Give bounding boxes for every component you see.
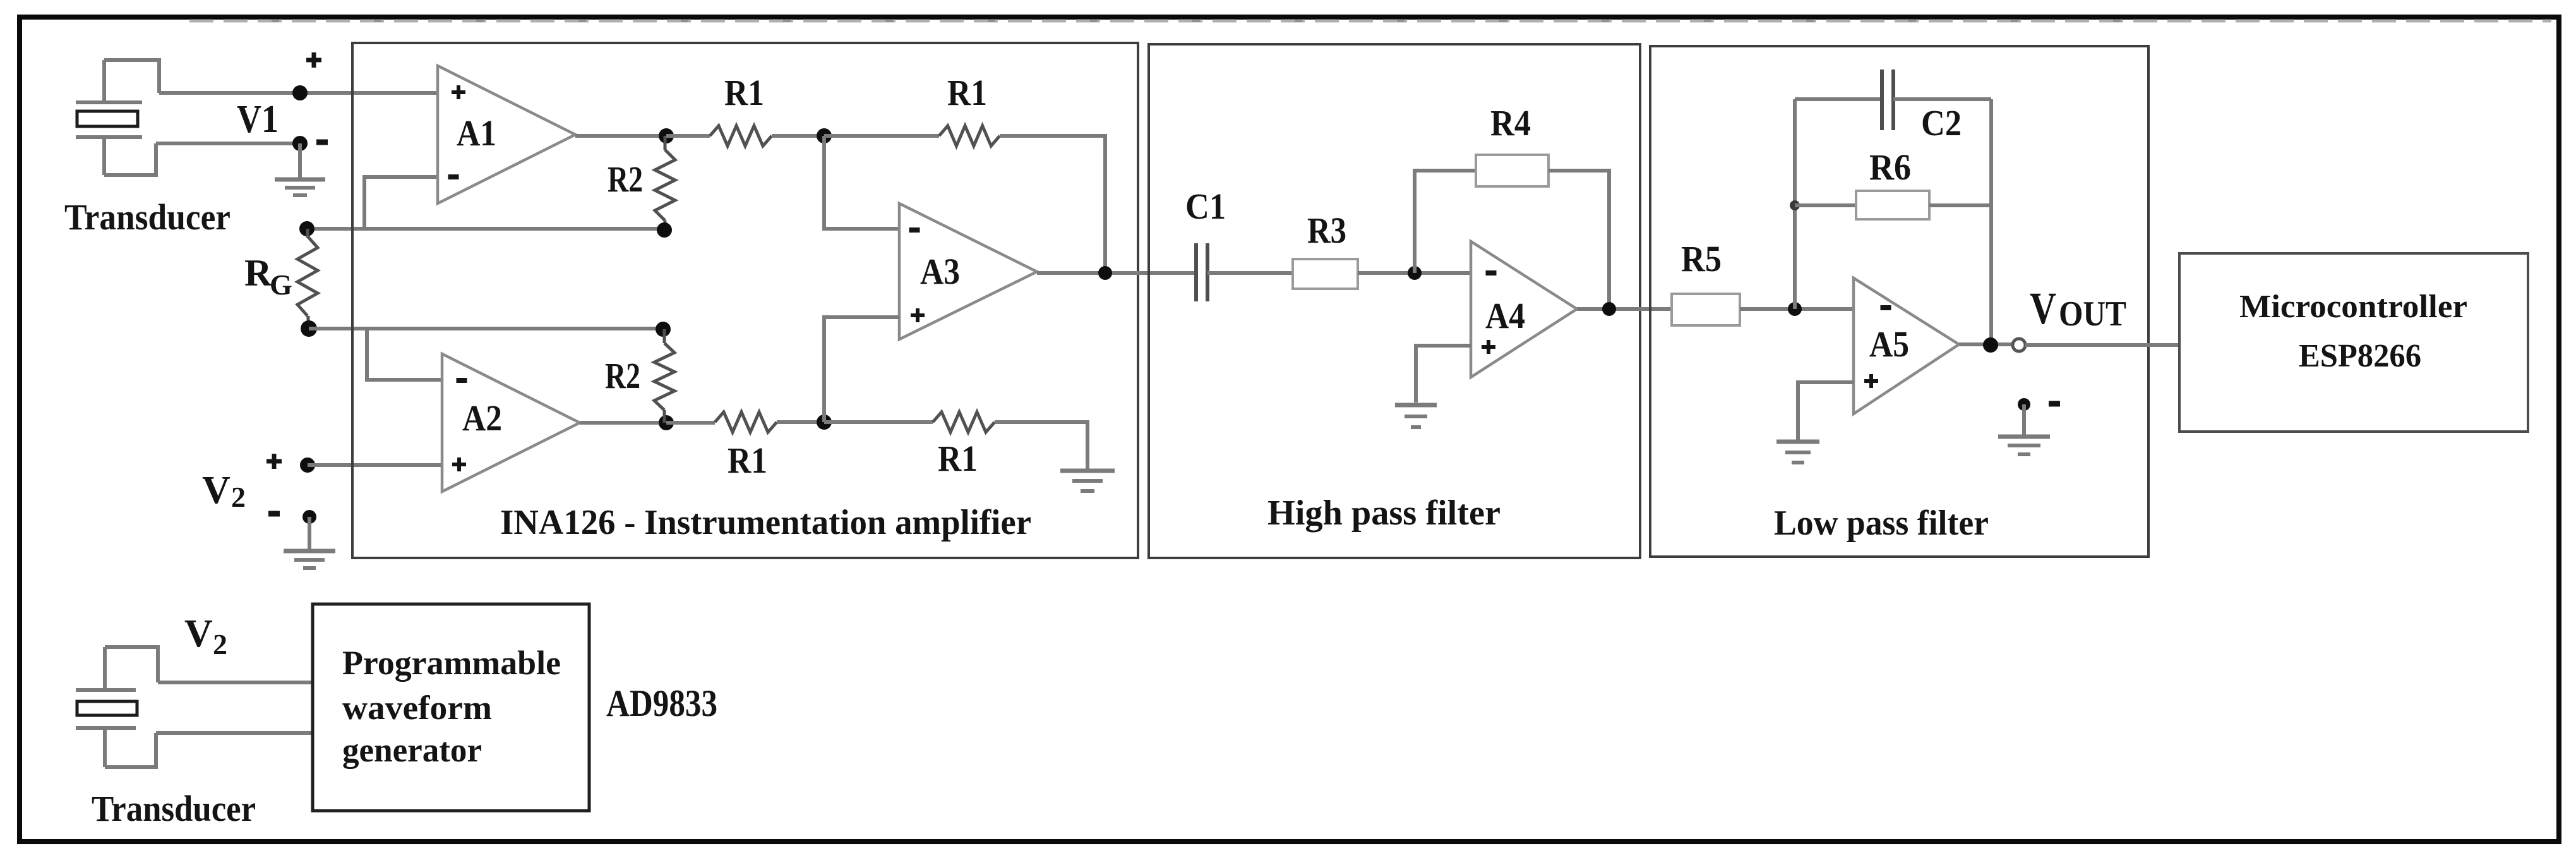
minus mark reference -	[2049, 401, 2060, 407]
svg-text:R2: R2	[605, 355, 640, 396]
svg-text:Microcontroller: Microcontroller	[2239, 289, 2467, 325]
wire R1d to ground	[995, 422, 1087, 469]
svg-text:V: V	[2030, 283, 2056, 334]
node V2- terminal	[303, 510, 316, 524]
wire R1a to summing node	[772, 134, 824, 138]
resistor R1 (bottom-left, zigzag)	[715, 412, 777, 432]
wire A1 output	[575, 134, 666, 138]
minus mark V1 -	[316, 140, 328, 145]
svg-text:Low pass filter: Low pass filter	[1774, 504, 1989, 543]
wire A4 output	[1577, 307, 1672, 311]
resistor R6 (box)	[1856, 191, 1929, 219]
svg-text:High pass filter: High pass filter	[1267, 494, 1501, 533]
ground at reference terminal	[2022, 404, 2026, 435]
wire summing node to R1b	[824, 134, 939, 138]
wire R5 to A5 inverting input	[1740, 307, 1854, 311]
svg-text:R1: R1	[724, 72, 764, 113]
svg-text:C1: C1	[1185, 186, 1226, 227]
node A5 output / VOUT	[1983, 337, 1998, 353]
ground at V2-	[308, 517, 311, 549]
svg-text:R1: R1	[728, 440, 767, 481]
svg-text:OUT: OUT	[2059, 294, 2126, 334]
op-amp A5	[1854, 278, 1959, 414]
resistor R1 (top-right, zigzag)	[939, 126, 1000, 146]
wire A3 non-inverting input step	[824, 317, 899, 422]
wire A2 output	[580, 421, 666, 425]
op-amp A4	[1471, 241, 1577, 377]
node A3 non-inverting branch	[817, 415, 832, 430]
wire R4 to A4 output node	[1549, 171, 1609, 309]
wire A5 non-inverting input to ground	[1798, 382, 1854, 440]
svg-text:R4: R4	[1490, 102, 1531, 143]
capacitor C2	[1880, 70, 1884, 130]
wire A2 output node to R1c	[666, 421, 715, 425]
minus mark V2 -	[268, 511, 280, 517]
svg-text:2: 2	[231, 481, 246, 513]
minus mark A3 - input	[909, 227, 920, 233]
svg-text:2: 2	[213, 628, 227, 660]
ground at R1d	[1086, 468, 1089, 469]
svg-text:AD9833: AD9833	[606, 682, 717, 724]
wire V2+ to A2 non-inverting input	[308, 463, 442, 467]
wire VOUT to microcontroller	[2025, 343, 2179, 347]
block box High pass filter	[1149, 44, 1640, 558]
wire R1b to A3 output node (feedback)	[1000, 136, 1105, 273]
wire RG top node to R2a bottom node (A1 feedback rail)	[307, 227, 664, 231]
resistor R5 (box)	[1672, 294, 1740, 325]
plus mark A3 + input	[911, 313, 925, 317]
node R5 output	[1788, 302, 1802, 316]
resistor R4 (box)	[1476, 155, 1549, 186]
capacitor C1	[1194, 243, 1198, 301]
op-amp A2	[442, 354, 580, 492]
resistor R2 (lower, zigzag)	[663, 329, 666, 343]
plus mark V2 +	[267, 459, 282, 464]
wire RG bottom node to R2b top node (A2 feedback rail)	[309, 327, 663, 330]
minus mark A1 - input	[448, 174, 459, 179]
wire V1- from transducer	[156, 142, 300, 145]
svg-text:Programmable: Programmable	[342, 644, 561, 682]
minus mark A5 - input	[1881, 305, 1891, 310]
plus mark A4 + input	[1482, 345, 1495, 349]
svg-text:Transducer: Transducer	[64, 197, 231, 238]
node V2+ terminal	[300, 457, 315, 473]
node A2 output	[659, 415, 674, 430]
wire A2 inverting input step	[367, 329, 442, 380]
wire A4 feedback up through R4	[1415, 171, 1476, 273]
node RG bottom	[301, 320, 317, 337]
minus mark A4 - input	[1486, 270, 1497, 276]
svg-text:waveform: waveform	[342, 689, 492, 727]
node RG top	[299, 221, 315, 236]
open terminal circle VOUT	[2013, 339, 2025, 351]
node R2a bottom	[657, 222, 672, 238]
wire A3 inverting input step	[824, 136, 899, 229]
node A3 output	[1098, 266, 1112, 280]
wire R1c to lower summing node	[777, 420, 824, 424]
svg-text:R: R	[244, 252, 272, 294]
svg-text:C2: C2	[1921, 102, 1962, 143]
wire C1 to R3	[1207, 271, 1293, 275]
resistor R3 (box)	[1293, 259, 1358, 289]
minus mark A2 - input	[457, 378, 467, 383]
svg-text:A5: A5	[1869, 324, 1909, 365]
ground at A4 +	[1414, 401, 1418, 403]
svg-text:G: G	[270, 269, 292, 301]
svg-text:Transducer: Transducer	[92, 788, 256, 829]
wire A1 inverting input step	[364, 177, 438, 229]
plus mark A2 + input	[452, 463, 466, 466]
wire C2 to output column	[1893, 97, 1991, 101]
block box Programmable waveform generator	[313, 604, 589, 811]
node A1 output	[659, 128, 674, 143]
svg-text:generator: generator	[342, 731, 482, 769]
node R2b top	[656, 322, 671, 337]
ground at A5 +	[1796, 439, 1800, 440]
plus mark A1 + input	[452, 90, 465, 94]
wire transducer to waveform generator (bottom lead)	[156, 731, 313, 735]
wire R3 to A4 inverting node	[1358, 271, 1471, 275]
svg-text:R3: R3	[1307, 210, 1346, 251]
svg-text:A2: A2	[462, 397, 502, 439]
svg-text:R1: R1	[947, 72, 987, 113]
svg-text:R6: R6	[1869, 147, 1911, 188]
wire feedback column up from R5 node	[1793, 99, 1797, 309]
op-amp A1	[438, 66, 575, 203]
node V1+	[292, 85, 308, 100]
plus mark V1 +	[306, 58, 321, 63]
node reference - terminal	[2018, 398, 2030, 411]
resistor R2 (upper, zigzag)	[664, 136, 667, 150]
svg-text:A4: A4	[1485, 295, 1525, 336]
wire R6 to output column	[1929, 203, 1991, 207]
transducer (top, V1 source)	[76, 60, 159, 175]
wire lower summing node to R1d	[824, 420, 933, 424]
resistor R1 (bottom-right, zigzag)	[933, 412, 995, 432]
plus mark A5 + input	[1864, 379, 1878, 383]
resistor RG (zigzag)	[297, 236, 318, 316]
wire A4 non-inverting input to ground	[1416, 346, 1471, 403]
node A4 inverting input	[1408, 266, 1422, 280]
svg-text:ESP8266: ESP8266	[2299, 338, 2421, 374]
wire transducer to waveform generator (top lead)	[158, 681, 313, 684]
svg-text:V1: V1	[237, 98, 279, 141]
svg-text:V: V	[184, 612, 213, 655]
svg-text:V: V	[202, 469, 231, 512]
svg-text:INA126 - Instrumentation ampli: INA126 - Instrumentation amplifier	[500, 503, 1031, 542]
resistor R1 (top-left, zigzag)	[710, 126, 772, 146]
svg-text:A3: A3	[920, 251, 960, 292]
wire C2 branch	[1795, 97, 1882, 101]
block box Microcontroller ESP8266	[2179, 253, 2528, 432]
block box INA126 instrumentation amplifier	[352, 43, 1138, 558]
svg-text:R2: R2	[608, 159, 643, 200]
ground at V1-	[298, 143, 302, 178]
wire R6 branch	[1795, 203, 1856, 207]
wire A1 output to R1a	[666, 134, 710, 138]
svg-text:R1: R1	[938, 438, 978, 479]
wire A3 output	[1037, 271, 1196, 275]
svg-text:A1: A1	[457, 112, 496, 154]
block box Low pass filter	[1650, 46, 2148, 557]
svg-text:R5: R5	[1681, 238, 1722, 279]
node A3 inverting branch	[817, 128, 832, 143]
node V1-	[292, 136, 308, 151]
wire A5 output	[1959, 342, 2012, 346]
junction R6/feedback column	[1790, 200, 1800, 210]
transducer (bottom, driven)	[76, 647, 158, 767]
node A4 output	[1602, 302, 1616, 316]
op-amp A3	[899, 203, 1037, 339]
wire V1+ from transducer to A1 non-inverting input	[159, 91, 438, 95]
wire output feedback column	[1989, 99, 1993, 345]
